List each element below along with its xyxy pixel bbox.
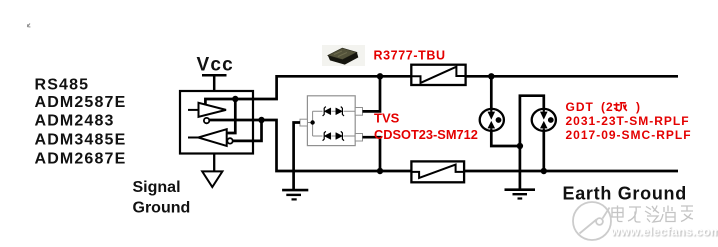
svg-text:CDSOT23-SM712: CDSOT23-SM712 (374, 127, 478, 142)
wire G2 top to ground node (520, 96, 544, 146)
signal ground earth symbol TVS (282, 190, 308, 199)
svg-text:R3777-TBU: R3777-TBU (374, 49, 446, 63)
node A junction dot (232, 96, 238, 102)
earth ground symbol (505, 190, 536, 199)
TBU T1 top (411, 65, 465, 85)
driver inverting output bubble (204, 118, 209, 123)
TVS D1 package (300, 96, 363, 146)
ground node junction dot (517, 143, 523, 149)
label Signal Ground (133, 179, 191, 217)
svg-text:(2: (2 (601, 100, 614, 114)
TVS diode pair top (323, 107, 344, 116)
wire B driver inverting output to bottom rail (209, 120, 411, 171)
svg-text:2031-23T-SM-RPLF: 2031-23T-SM-RPLF (566, 114, 690, 128)
wire TVS pin3 to signal ground (294, 123, 300, 190)
wire G1 bottom to ground node (491, 131, 520, 146)
driver buffer (188, 103, 226, 117)
junction dot TVS pin2 rail (377, 168, 383, 174)
signal ground triangle U1 (202, 154, 222, 188)
wire receiver input to node A (227, 99, 236, 133)
wire receiver inverting input to node B (233, 120, 262, 141)
receiver input bubble (227, 138, 232, 143)
label GDT part numbers (566, 100, 692, 142)
TVS internal junction dot (310, 120, 314, 124)
GDT G2 (532, 109, 556, 131)
TBU chip photo (322, 45, 365, 66)
svg-text:GDT: GDT (566, 100, 594, 114)
label RS485 device list (35, 77, 127, 168)
transceiver U1 box (180, 91, 253, 154)
elecfans watermark logo (573, 202, 611, 240)
svg-text:ADM2483: ADM2483 (35, 113, 115, 130)
cursor artifact (27, 24, 30, 28)
wire bottom rail right segment (464, 170, 678, 173)
junction dot TVS pin1 rail (377, 73, 383, 79)
svg-text:ADM3485E: ADM3485E (35, 132, 127, 149)
svg-text:RS485: RS485 (35, 77, 90, 94)
svg-text:www.elecfans.com: www.elecfans.com (610, 225, 718, 239)
svg-text:Signal: Signal (133, 179, 181, 196)
svg-text:): ) (636, 100, 641, 114)
wire ground node to earth ground (519, 146, 522, 189)
glyph ji (pole) hand-drawn (614, 103, 627, 112)
wire TVS pin1 to top rail (363, 76, 381, 111)
svg-text:ADM2687E: ADM2687E (35, 150, 127, 167)
wire A driver output to top rail (205, 76, 411, 104)
junction dot G1 top rail (488, 73, 494, 79)
svg-text:Earth Ground: Earth Ground (563, 184, 687, 204)
TBU T2 bottom (411, 161, 464, 182)
svg-text:TVS: TVS (374, 111, 400, 126)
svg-text:Ground: Ground (133, 199, 191, 216)
svg-text:Vcc: Vcc (197, 55, 234, 76)
junction dot G2 rail (541, 168, 547, 174)
receiver buffer (188, 129, 227, 146)
wire TVS pin2 to bottom rail (363, 137, 381, 171)
label TVS CDSOT23-SM712 (374, 111, 478, 143)
wire top rail right segment (466, 75, 678, 78)
TVS diode pair bottom (323, 131, 344, 140)
node B junction dot (258, 117, 264, 123)
TVS internal wiring (307, 111, 355, 136)
elecfans watermark chinese text (612, 206, 693, 223)
wire GDT G1 top lead (490, 76, 493, 109)
Vcc supply bar (202, 75, 227, 91)
svg-text:2017-09-SMC-RPLF: 2017-09-SMC-RPLF (566, 128, 692, 142)
GDT G1 (480, 109, 504, 131)
wire G2 bottom to bottom rail (542, 131, 545, 171)
svg-text:ADM2587E: ADM2587E (35, 94, 127, 111)
